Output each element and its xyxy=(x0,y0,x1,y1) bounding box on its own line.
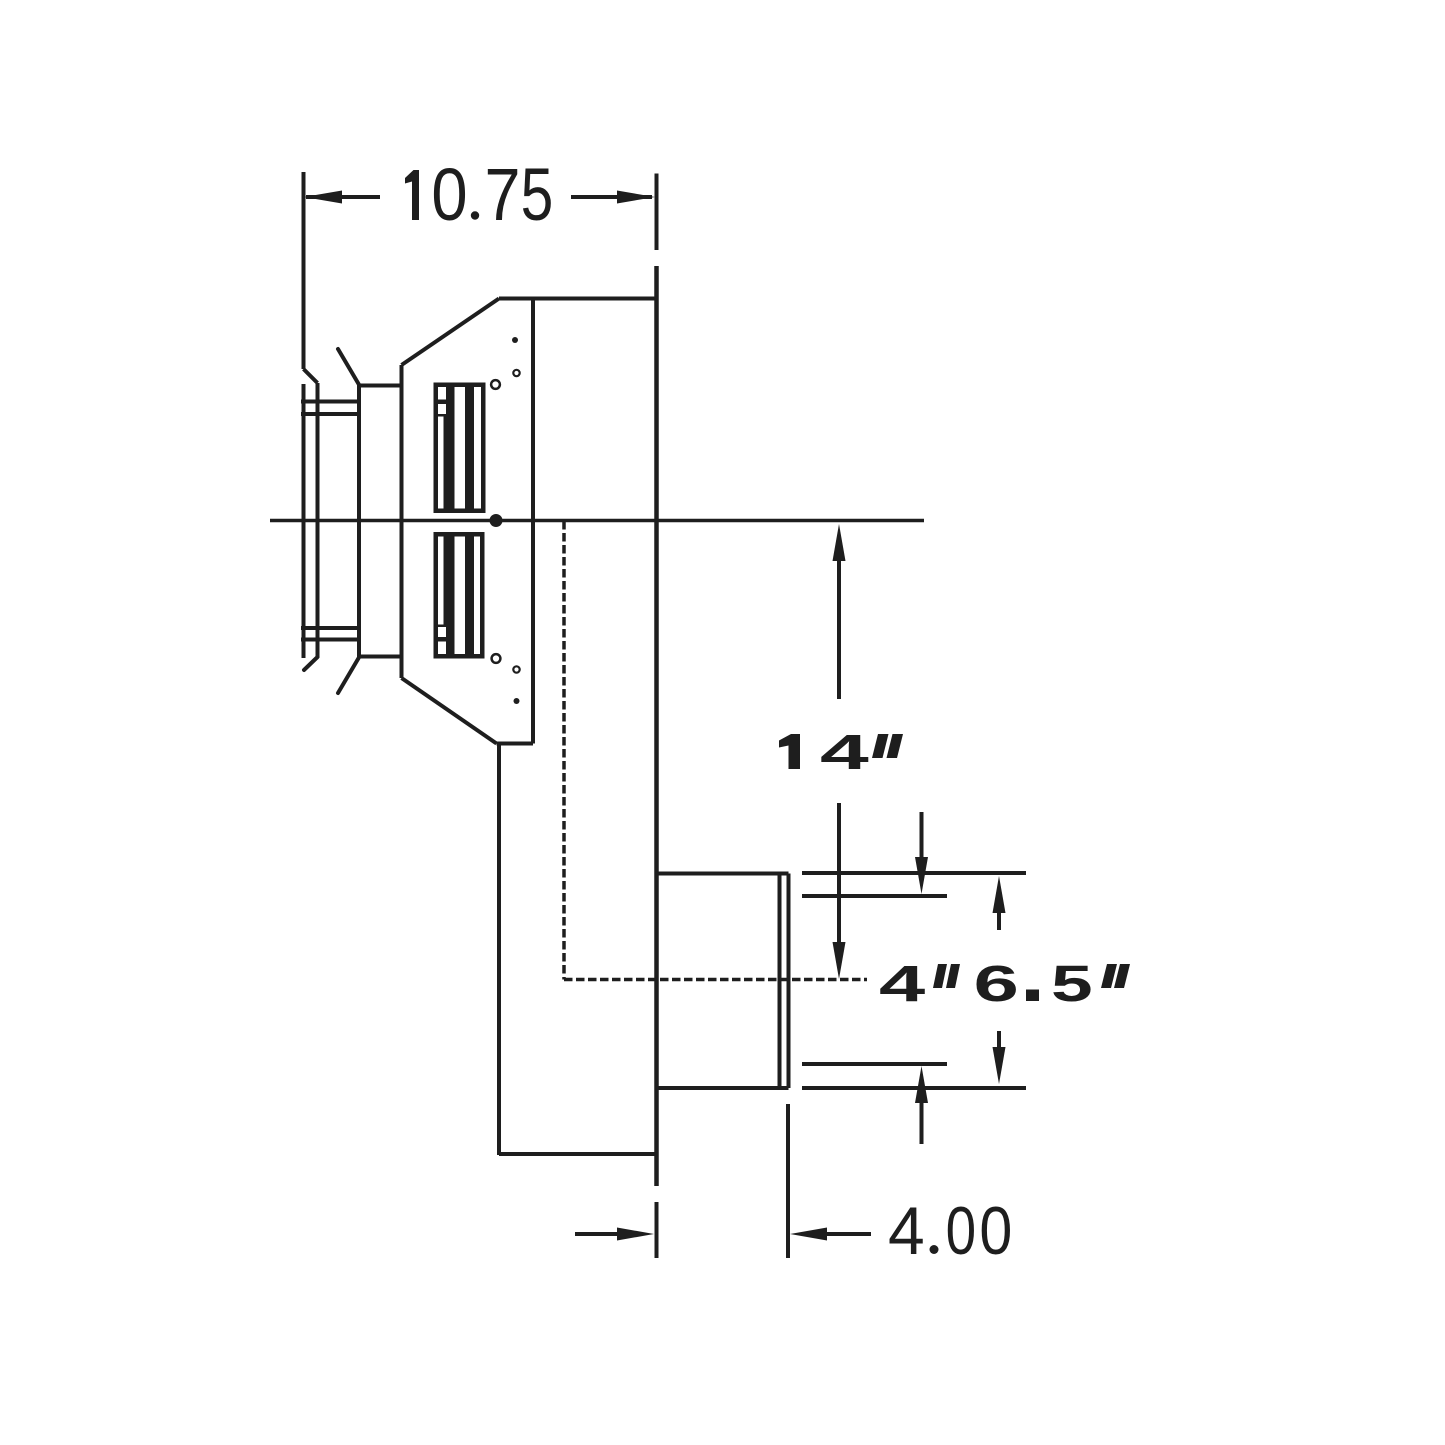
extension line pipe outer bottom xyxy=(802,1086,1026,1090)
lower face large screw hole xyxy=(492,654,501,663)
lower louver slat 1 upper widening xyxy=(444,537,447,625)
horizontal centerline xyxy=(270,519,924,523)
dimension text 6.5 period xyxy=(1026,990,1039,1002)
dimension text 4.00 xyxy=(888,1192,1012,1269)
flange front plate line xyxy=(316,383,320,657)
pipe bottom edge xyxy=(657,1086,789,1090)
cap body top edge xyxy=(499,297,658,301)
lower louver cell divider 2 xyxy=(438,625,446,628)
lower louver cell divider 1 xyxy=(438,637,446,642)
dimension text 6.5 quotes xyxy=(1101,964,1130,988)
collar top flare diagonal xyxy=(338,349,360,386)
flange lower tick 1 xyxy=(301,626,360,630)
flange upper tick 1 xyxy=(301,400,360,404)
flange back plate line xyxy=(302,384,306,658)
dimension text 10.75 xyxy=(405,153,553,237)
cap body bottom-left slant xyxy=(402,678,497,744)
wall line main segment xyxy=(654,266,659,1186)
dimension 10.75 right arrowhead xyxy=(617,191,655,204)
dimension 4in up arrowhead xyxy=(915,1066,928,1103)
dimension 6.5 up-arrow shaft xyxy=(997,906,1001,930)
lower face screw dot xyxy=(514,698,520,704)
lower louver slat 2 xyxy=(465,537,474,655)
dimension 6.5 down-arrow shaft xyxy=(997,1031,1001,1054)
upper face screw dot xyxy=(512,337,518,343)
dimension 14 up arrowhead xyxy=(833,524,846,561)
pipe top edge xyxy=(657,872,789,876)
vertical duct left edge xyxy=(497,744,501,1156)
dimension 10.75 dimension line right segment xyxy=(571,195,652,199)
dimension 14 down-arrow shaft xyxy=(837,803,841,946)
dimension text 14 digit 1 xyxy=(779,734,800,769)
extension line pipe outer top xyxy=(802,871,1026,875)
svg-text:0: 0 xyxy=(946,1193,976,1269)
svg-text:4: 4 xyxy=(820,726,869,780)
dimension 6.5 up arrowhead xyxy=(993,876,1006,913)
svg-text:4: 4 xyxy=(879,955,925,1012)
dimension 6.5 down arrowhead xyxy=(993,1047,1006,1084)
upper louver slat 2 xyxy=(465,387,474,509)
svg-text:6: 6 xyxy=(974,955,1019,1012)
extension line pipe inner top xyxy=(802,894,947,898)
dimension 10.75 left arrowhead xyxy=(304,191,342,204)
hidden flue centerline horizontal (dashed) xyxy=(564,978,867,982)
dimension text 14 inch quotes xyxy=(872,734,903,758)
svg-text:5: 5 xyxy=(1051,955,1093,1012)
cap body bottom edge xyxy=(497,742,534,746)
vertical duct bottom edge xyxy=(499,1152,656,1156)
dimension 4in down arrowhead xyxy=(915,857,928,894)
svg-text:4: 4 xyxy=(888,1193,925,1269)
svg-text:0: 0 xyxy=(431,153,467,236)
cap face vertical line xyxy=(531,299,535,744)
extension line below pipe end xyxy=(786,1104,790,1258)
dimension 4.00 right shaft xyxy=(820,1232,871,1236)
flange bottom jog diagonal xyxy=(304,657,318,670)
upper louver slat 1 lower widening xyxy=(444,417,447,509)
dimension 10.75 dimension line left segment xyxy=(306,195,380,199)
lower louver slat 1 xyxy=(446,537,455,655)
lower face small screw hole xyxy=(513,666,519,672)
upper louver cell divider 2 xyxy=(438,414,446,417)
svg-text:7: 7 xyxy=(485,153,521,236)
collar bottom flare diagonal xyxy=(338,657,360,694)
dimension 4.00 right-pointing arrowhead xyxy=(617,1228,654,1241)
cap body top-left slant xyxy=(402,299,500,366)
svg-text:0: 0 xyxy=(979,1192,1012,1269)
upper face large screw hole xyxy=(491,380,500,389)
dimension 10.75 left extension line xyxy=(302,172,306,369)
dimension 4.00 left-pointing arrowhead xyxy=(790,1228,827,1241)
dimension 4in down-arrow shaft xyxy=(920,812,924,864)
upper louver slat 1 xyxy=(446,387,455,509)
extension line pipe inner bottom xyxy=(802,1062,947,1066)
lower louver panel frame xyxy=(434,532,485,659)
dimension 14 up-arrow shaft xyxy=(837,556,841,699)
upper louver cell divider 1 xyxy=(438,400,446,405)
centerline junction dot xyxy=(490,514,503,527)
dimension 14 down arrowhead xyxy=(833,942,846,979)
wall line lower dash segment xyxy=(655,1202,659,1258)
flange top jog diagonal xyxy=(304,369,318,383)
collar end plate xyxy=(357,384,361,659)
dimension 4in up-arrow shaft xyxy=(920,1096,924,1144)
pipe end inner line xyxy=(778,874,782,1089)
upper louver panel frame xyxy=(434,383,486,514)
dimension text 4in quotes xyxy=(933,964,960,988)
dimension 4.00 left shaft xyxy=(575,1232,624,1236)
pipe end outer line xyxy=(787,874,791,1089)
cap body left edge xyxy=(400,365,404,678)
upper face small screw hole xyxy=(513,370,519,376)
flange upper tick 2 xyxy=(301,412,360,416)
collar bottom edge xyxy=(359,655,402,659)
hidden flue centerline vertical (dashed) xyxy=(562,521,566,980)
svg-text:5: 5 xyxy=(521,155,554,237)
wall line upper segment xyxy=(655,174,659,251)
flange lower tick 2 xyxy=(301,638,360,642)
collar top edge xyxy=(359,384,402,388)
